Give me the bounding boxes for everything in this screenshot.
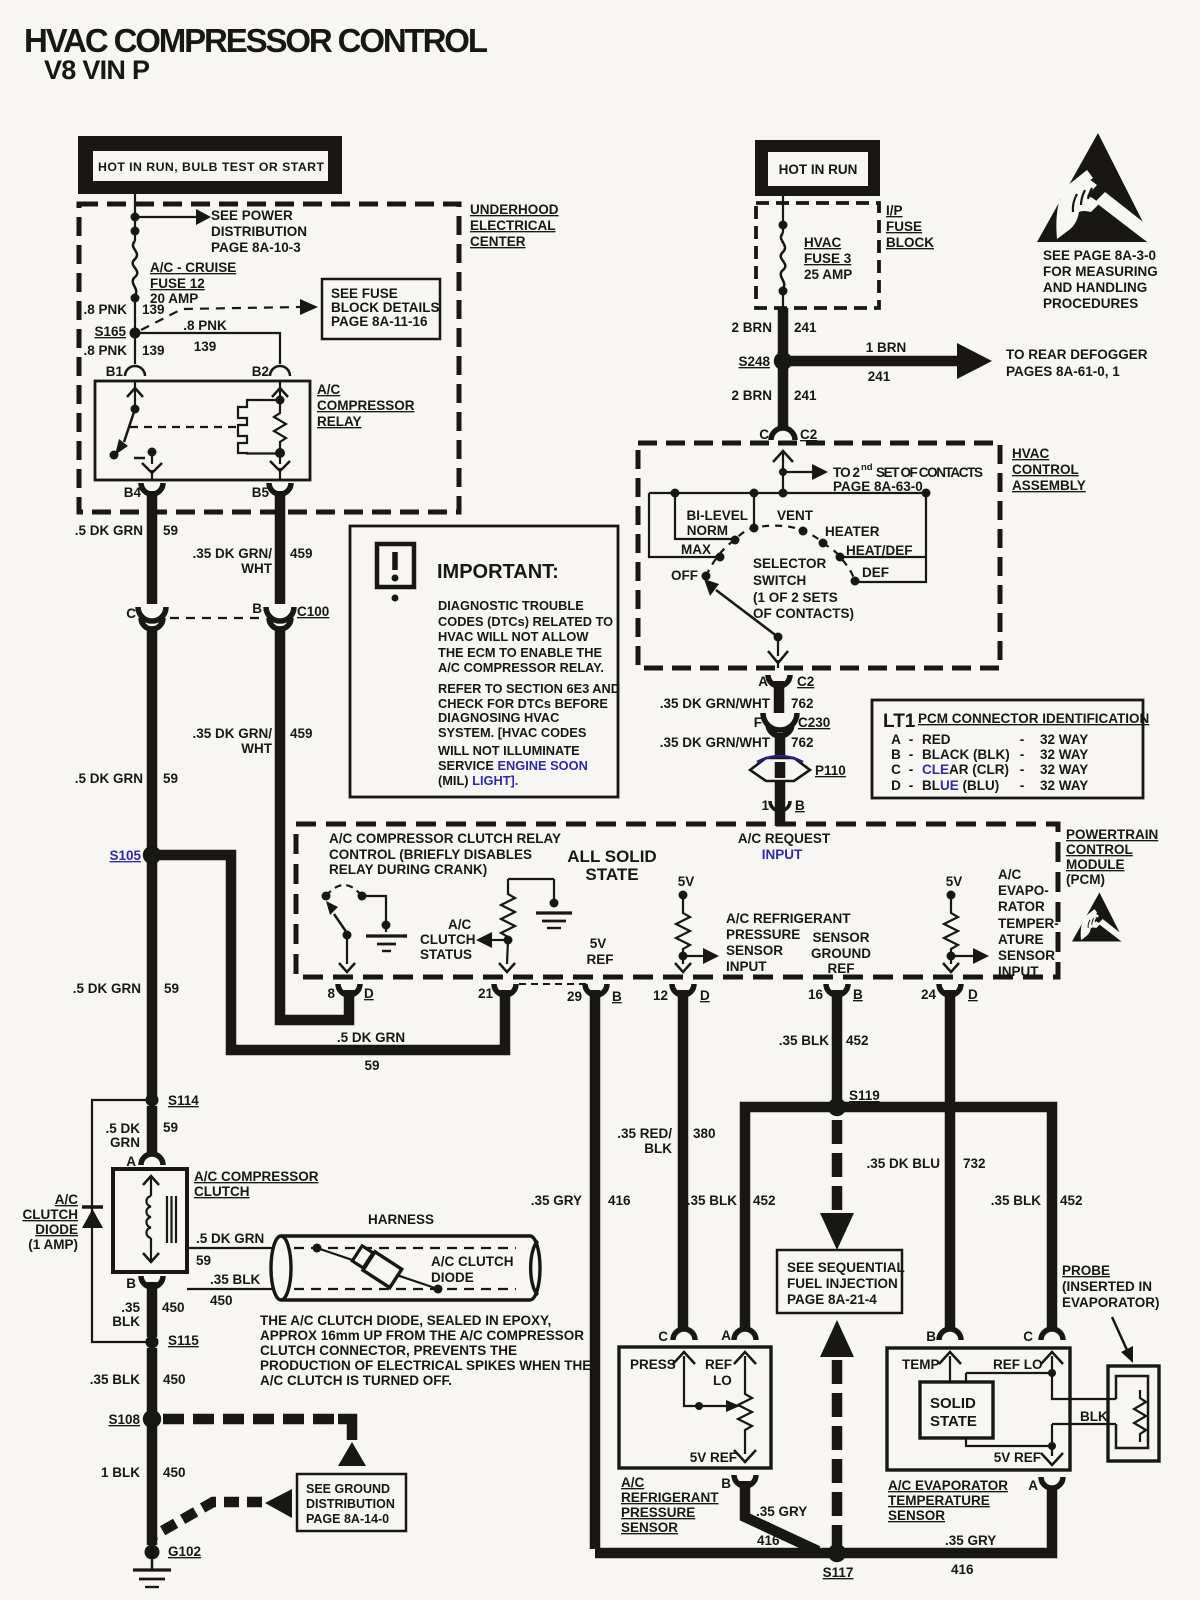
svg-text:416: 416 [608,1193,631,1208]
svg-text:S108: S108 [108,1412,140,1427]
svg-text:A: A [126,1154,136,1169]
wire bus to NORM contact [675,493,731,539]
svg-text:GRN: GRN [110,1135,140,1150]
coil top node [276,396,285,405]
wire B1 into relay [134,381,136,409]
svg-text:BLK: BLK [1080,1409,1108,1424]
svg-text:FUSE 3: FUSE 3 [804,251,852,266]
svg-text:HOT IN RUN: HOT IN RUN [779,162,858,177]
harness inset: wire .35 BLK 450 [187,1288,273,1290]
svg-text:G102: G102 [168,1544,201,1559]
selector contact OFF [702,572,711,581]
selector contact HEATER [819,539,828,548]
svg-text:STATE: STATE [585,865,638,884]
svg-text:C: C [759,427,769,442]
svg-text:B5: B5 [252,485,270,500]
svg-text:A/C: A/C [448,917,472,932]
connector C100 dashed link [170,617,264,619]
A/C clutch diode [82,1205,103,1209]
svg-text:RELAY: RELAY [317,414,362,429]
selector contact BI-LEVEL [750,524,759,533]
dashed wire from fuel injection page to S117 [820,1320,854,1357]
svg-text:S165: S165 [94,324,126,339]
wire C2 into selector common [782,450,784,493]
node dot [779,221,788,230]
wire B5 .35 DK GRN/WHT continues down to PCM pin 8 [280,628,349,1020]
wire pin 12 to pressure sensor C (.35 RED/BLK 380) [678,990,689,1330]
svg-text:452: 452 [1060,1193,1083,1208]
svg-text:SENSOR: SENSOR [812,930,869,945]
svg-text:FUEL INJECTION: FUEL INJECTION [787,1276,898,1291]
svg-text:ALL SOLID: ALL SOLID [567,847,656,866]
svg-text:59: 59 [163,1120,178,1135]
HVAC control assembly dashed box [638,443,1000,668]
svg-text:.5 DK: .5 DK [105,1121,140,1136]
wire into fuse 3 [782,196,784,233]
svg-text:32 WAY: 32 WAY [1040,732,1088,747]
svg-text:.35 BLK: .35 BLK [991,1193,1042,1208]
wire to S165 [134,298,136,364]
svg-text:HVAC WILL NOT ALLOW: HVAC WILL NOT ALLOW [438,629,589,644]
underhood electrical center dashed box [79,204,459,512]
power label box HOT IN RUN [755,140,880,196]
svg-text:BLK: BLK [112,1314,140,1329]
svg-text:TO REAR DEFOGGER: TO REAR DEFOGGER [1006,347,1148,362]
I/P fuse block dashed box [756,203,879,308]
svg-text:S248: S248 [738,354,770,369]
svg-text:S117: S117 [823,1565,854,1580]
fuse F3 symbol (wavy) [781,233,786,288]
selector contact MAX [716,553,725,562]
svg-text:B: B [126,1276,136,1291]
wire to pin 24 [950,956,952,964]
svg-text:SEE POWER: SEE POWER [211,208,293,223]
ground G102 [145,1545,160,1560]
splice S117 [828,1544,846,1562]
press wiper [673,1352,695,1364]
wire clutch B to S115 (.35 BLK 450) [147,1282,158,1337]
wire S115 to S108 (.35 BLK 450) [147,1348,158,1414]
svg-text:5V REF: 5V REF [690,1450,737,1465]
svg-text:VENT: VENT [777,508,814,523]
svg-text:A/C: A/C [998,867,1022,882]
splice S115 [146,1336,159,1349]
svg-text:D: D [700,988,710,1003]
svg-text:-: - [1020,762,1025,777]
wire S119 to pressure sensor A (.35 BLK 452) [745,1107,837,1330]
wire S165 to B2 [135,333,280,364]
svg-text:UNDERHOOD: UNDERHOOD [470,202,559,217]
powertrain control module dashed box [296,824,1058,977]
svg-text:PRESSURE: PRESSURE [726,927,800,942]
svg-text:REFER TO SECTION 6E3 AND: REFER TO SECTION 6E3 AND [438,681,620,696]
svg-text:EVAPO-: EVAPO- [998,883,1049,898]
svg-text:PAGE 8A-14-0: PAGE 8A-14-0 [306,1512,389,1526]
svg-text:HARNESS: HARNESS [368,1212,434,1227]
wiper wire out [777,637,779,656]
svg-text:STATUS: STATUS [420,947,472,962]
svg-text:C: C [658,1329,668,1344]
ESD symbol small [1072,892,1128,944]
svg-text:-: - [1020,732,1025,747]
svg-text:A: A [1028,1478,1038,1493]
svg-text:BLACK (BLK): BLACK (BLK) [922,747,1010,762]
svg-text:B: B [926,1329,936,1344]
svg-text:ELECTRICAL: ELECTRICAL [470,218,556,233]
svg-text:-: - [1020,778,1025,793]
svg-text:459: 459 [290,726,313,741]
svg-text:SEE FUSE: SEE FUSE [331,286,398,301]
svg-text:NORM: NORM [687,523,728,538]
svg-text:PAGE 8A-11-16: PAGE 8A-11-16 [331,314,428,329]
svg-text:I/P: I/P [886,203,903,218]
svg-text:29: 29 [567,989,582,1004]
svg-text:1 BRN: 1 BRN [866,340,907,355]
svg-text:COMPRESSOR: COMPRESSOR [317,398,415,413]
svg-text:C: C [891,762,901,777]
svg-text:DEF: DEF [862,565,889,580]
box SEE SEQUENTIAL FUEL INJECTION [777,1250,902,1313]
mechanical link dashed [130,426,237,428]
svg-text:.5 DK GRN: .5 DK GRN [75,771,143,786]
ref lo wire with junction [1041,1352,1063,1364]
svg-text:BLUE (BLU): BLUE (BLU) [922,778,999,793]
svg-text:.35 GRY: .35 GRY [531,1193,582,1208]
svg-text:-: - [909,762,914,777]
svg-text:B2: B2 [252,364,269,379]
svg-text:SENSOR: SENSOR [621,1520,678,1535]
grommet P110 [750,758,810,781]
box LT1 PCM connector identification [872,700,1143,798]
dashed selector arc [706,526,855,581]
svg-text:.8 PNK: .8 PNK [83,343,127,358]
svg-text:BLK: BLK [644,1141,672,1156]
dashed arrow to fuse details [141,307,300,330]
pot resistor [734,1352,756,1364]
svg-text:THE A/C CLUTCH DIODE, SEALED I: THE A/C CLUTCH DIODE, SEALED IN EPOXY, [260,1313,551,1328]
svg-text:SENSOR: SENSOR [888,1508,945,1523]
svg-text:HOT IN RUN, BULB TEST OR START: HOT IN RUN, BULB TEST OR START [98,160,324,174]
svg-text:.35 RED/: .35 RED/ [617,1126,672,1141]
svg-text:SEE GROUND: SEE GROUND [306,1482,390,1496]
selector contact NORM [731,536,740,545]
harness inset: wire .5 DK GRN 59 [187,1247,273,1249]
svg-text:(MIL) LIGHT].: (MIL) LIGHT]. [438,773,518,788]
svg-text:WILL NOT ILLUMINATE: WILL NOT ILLUMINATE [438,743,580,758]
dashed wire S119 to fuel injection page [832,1120,843,1210]
svg-text:C2: C2 [797,674,814,689]
svg-text:32 WAY: 32 WAY [1040,747,1088,762]
splice S108 [143,1410,161,1428]
arrowhead up [127,388,143,397]
relay control switch [322,892,331,901]
svg-text:.5 DK GRN: .5 DK GRN [196,1231,264,1246]
svg-text:452: 452 [846,1033,869,1048]
harness tube [281,1236,530,1300]
svg-text:.35 GRY: .35 GRY [756,1504,807,1519]
node dot [779,468,787,476]
svg-text:BLOCK DETAILS: BLOCK DETAILS [331,300,440,315]
wire 1 BLK 450 [147,1425,158,1545]
svg-text:SELECTOR: SELECTOR [753,556,827,571]
svg-text:.5 DK GRN: .5 DK GRN [73,981,141,996]
svg-text:32 WAY: 32 WAY [1040,762,1088,777]
wire contact to B4 [151,452,153,464]
svg-text:DISTRIBUTION: DISTRIBUTION [211,224,307,239]
svg-text:5V: 5V [678,874,695,889]
svg-text:INPUT: INPUT [998,964,1039,979]
wire bus to BI-LEVEL contact [753,493,755,526]
svg-text:INPUT: INPUT [762,847,803,862]
svg-text:.35 GRY: .35 GRY [945,1533,996,1548]
svg-text:A/C: A/C [317,382,341,397]
dashed wire S108 to ground distribution [163,1414,338,1425]
svg-text:A/C COMPRESSOR CLUTCH RELAY: A/C COMPRESSOR CLUTCH RELAY [329,831,561,846]
probe resistor (inserted in evaporator) [1108,1366,1159,1461]
splice S248 [774,352,792,370]
svg-text:.35 DK GRN/WHT: .35 DK GRN/WHT [660,696,771,711]
svg-text:CLUTCH: CLUTCH [420,932,476,947]
svg-text:FUSE: FUSE [886,219,922,234]
svg-text:D: D [364,986,374,1001]
svg-text:HVAC COMPRESSOR CONTROL: HVAC COMPRESSOR CONTROL [24,22,488,59]
svg-text:380: 380 [693,1126,716,1141]
svg-text:(PCM): (PCM) [1066,872,1105,887]
clutch status sense resistor [508,878,554,880]
relay U1 A/C compressor relay box [95,381,310,480]
wire pin 24 to evap sensor B (.35 DK BLU 732) [945,990,956,1330]
svg-text:B: B [891,747,901,762]
svg-text:HEATER: HEATER [825,524,880,539]
svg-text:OFF: OFF [671,568,698,583]
svg-text:241: 241 [794,388,817,403]
svg-text:STATE: STATE [930,1413,977,1430]
dashed wires inside harness [294,1247,516,1249]
svg-text:A/C REQUEST: A/C REQUEST [738,831,831,846]
svg-text:459: 459 [290,546,313,561]
svg-text:25 AMP: 25 AMP [804,267,852,282]
svg-text:HEAT/DEF: HEAT/DEF [846,543,913,558]
svg-text:TO 2: TO 2 [833,465,860,480]
selector wiper arm [774,633,783,642]
svg-text:241: 241 [794,320,817,335]
svg-text:732: 732 [963,1156,986,1171]
splice S165 [130,328,141,339]
svg-text:.35 DK BLU: .35 DK BLU [866,1156,940,1171]
node dot [779,287,788,296]
wire coil to B5 [279,453,281,464]
svg-text:DIODE: DIODE [431,1270,474,1285]
svg-text:ASSEMBLY: ASSEMBLY [1012,478,1086,493]
svg-text:REF: REF [828,961,855,976]
svg-text:DIAGNOSTIC TROUBLE: DIAGNOSTIC TROUBLE [438,598,584,613]
box IMPORTANT note [350,526,618,797]
coil resistance zigzag [274,400,286,452]
svg-text:PAGE 8A-63-0: PAGE 8A-63-0 [833,479,923,494]
wire B5 down (.35 DK GRN/WHT 459) [275,491,286,604]
svg-text:.35: .35 [121,1300,140,1315]
svg-text:16: 16 [808,987,824,1002]
svg-text:LT1: LT1 [883,711,916,732]
svg-text:APPROX 16mm UP FROM THE A/C CO: APPROX 16mm UP FROM THE A/C COMPRESSOR [260,1328,584,1343]
svg-text:REF: REF [705,1357,732,1372]
svg-text:C230: C230 [798,715,830,730]
svg-text:FOR MEASURING: FOR MEASURING [1043,264,1158,279]
svg-text:CONTROL: CONTROL [1012,462,1079,477]
svg-text:SEE SEQUENTIAL: SEE SEQUENTIAL [787,1260,905,1275]
wire S119 to evap sensor C (.35 BLK 452) [837,1107,1052,1330]
svg-text:24: 24 [921,987,937,1002]
selector contact DEF [851,577,860,586]
box SEE GROUND DISTRIBUTION [297,1474,406,1531]
svg-text:59: 59 [164,981,179,996]
svg-text:MODULE: MODULE [1066,857,1125,872]
svg-text:241: 241 [868,369,891,384]
selector common bus [649,492,926,494]
svg-text:CLUTCH: CLUTCH [194,1184,250,1199]
svg-text:PAGES 8A-61-0, 1: PAGES 8A-61-0, 1 [1006,364,1120,379]
svg-text:-: - [1020,747,1025,762]
svg-text:(INSERTED IN: (INSERTED IN [1062,1279,1152,1294]
A/C evaporator temperature sensor box [887,1348,1070,1470]
dashed wire to G102 [155,1502,262,1535]
selector contact HEAT/DEF [836,553,845,562]
wire 2 BRN 241 to C2 [778,368,789,427]
svg-text:21: 21 [478,986,494,1001]
A/C clutch diode package [351,1244,402,1288]
ground bus wire 416 [595,1486,1052,1553]
arrow probe pointer [1112,1317,1127,1350]
svg-text:B: B [721,1476,731,1491]
svg-text:OF CONTACTS): OF CONTACTS) [753,606,854,621]
svg-text:139: 139 [142,302,165,317]
contact gap tick [134,457,145,460]
svg-text:POWERTRAIN: POWERTRAIN [1066,827,1158,842]
svg-text:RED: RED [922,732,951,747]
svg-text:A/C CLUTCH: A/C CLUTCH [431,1254,514,1269]
svg-text:A/C - CRUISE: A/C - CRUISE [150,260,236,275]
svg-text:V8 VIN P: V8 VIN P [44,55,150,85]
svg-text:A/C CLUTCH IS TURNED OFF.: A/C CLUTCH IS TURNED OFF. [260,1373,452,1388]
svg-text:HVAC: HVAC [1012,446,1050,461]
wire to pin 21 [507,940,508,964]
svg-text:CLEAR (CLR): CLEAR (CLR) [922,762,1009,777]
svg-text:.35 BLK: .35 BLK [687,1193,738,1208]
coil core bracket [238,400,280,454]
svg-text:S115: S115 [168,1333,199,1348]
wire bus to DEF / HEAT-DEF contacts [858,493,926,582]
svg-text:A/C: A/C [55,1192,79,1207]
svg-text:SEE PAGE 8A-3-0: SEE PAGE 8A-3-0 [1043,248,1156,263]
svg-text:PAGE 8A-10-3: PAGE 8A-10-3 [211,240,301,255]
node dot [131,294,140,303]
svg-text:.35 DK GRN/WHT: .35 DK GRN/WHT [660,735,771,750]
relay left contact dot [110,451,119,460]
svg-text:HVAC: HVAC [804,235,842,250]
svg-text:C100: C100 [297,604,329,619]
svg-text:SERVICE ENGINE SOON: SERVICE ENGINE SOON [438,758,588,773]
solid state module box [920,1382,993,1438]
svg-text:B: B [252,601,262,616]
arrow A/C evaporator temperature sensor input [951,955,973,957]
svg-text:CHECK FOR DTCs BEFORE: CHECK FOR DTCs BEFORE [438,696,608,711]
svg-text:139: 139 [142,343,165,358]
svg-text:B: B [612,989,622,1004]
svg-text:B1: B1 [106,364,124,379]
coil bottom node [275,448,285,458]
fuse F12 symbol (wavy) [133,241,138,295]
svg-text:MAX: MAX [681,542,711,557]
svg-text:CONTROL: CONTROL [1066,842,1133,857]
svg-text:P110: P110 [815,763,846,778]
A/C refrigerant pressure sensor box [619,1347,771,1468]
wire 2 BRN 241 to S248 [778,308,789,355]
svg-text:B: B [853,987,863,1002]
diode branch wire [92,1100,146,1342]
svg-text:.8 PNK: .8 PNK [183,318,227,333]
svg-text:1 BLK: 1 BLK [101,1465,140,1480]
svg-text:C2: C2 [800,427,817,442]
svg-text:SYSTEM. [HVAC CODES: SYSTEM. [HVAC CODES [438,725,587,740]
svg-text:SWITCH: SWITCH [753,573,806,588]
svg-text:PAGE 8A-21-4: PAGE 8A-21-4 [787,1292,877,1307]
svg-text:-: - [909,778,914,793]
svg-text:TEMPERATURE: TEMPERATURE [888,1493,990,1508]
relay switch blade [124,409,135,442]
svg-text:5V: 5V [946,874,963,889]
ground symbol right [553,879,555,901]
svg-text:THE ECM TO ENABLE THE: THE ECM TO ENABLE THE [438,645,602,660]
svg-text:.35 BLK: .35 BLK [779,1033,830,1048]
wire to pin 8 [346,935,348,964]
arrow from ground distribution [265,1489,292,1518]
svg-text:B4: B4 [124,485,142,500]
svg-text:FUSE 12: FUSE 12 [150,276,205,291]
svg-text:A/C: A/C [621,1475,645,1490]
svg-text:PRODUCTION OF ELECTRICAL SPIKE: PRODUCTION OF ELECTRICAL SPIKES WHEN THE [260,1358,591,1373]
wire pin 29 to S117 bus (.35 GRY 416) [590,990,601,1549]
svg-text:416: 416 [951,1562,974,1577]
wire .35 DK GRN/WHT 762 [774,681,785,713]
svg-text:.35 BLK: .35 BLK [90,1372,141,1387]
svg-text:A/C REFRIGERANT: A/C REFRIGERANT [726,911,851,926]
svg-text:LO: LO [713,1373,732,1388]
svg-text:GROUND: GROUND [811,946,871,961]
wire bus to MAX contact [649,493,716,557]
svg-text:S119: S119 [849,1088,880,1103]
svg-text:.35 DK GRN/: .35 DK GRN/ [192,546,272,561]
5V ref return [966,1438,1052,1446]
relay coil wire from B2 [279,381,281,400]
svg-text:-: - [909,732,914,747]
wire .5 DK GRN continues to S105 [147,628,158,1096]
arrow A/C CLUTCH STATUS [492,939,508,941]
box SEE FUSE BLOCK DETAILS [322,279,440,339]
relay switch pivot dot [131,405,140,414]
svg-text:A: A [891,732,901,747]
svg-text:450: 450 [162,1300,185,1315]
svg-text:nd: nd [861,462,873,473]
arrow TO REAR DEFOGGER [790,356,957,367]
svg-text:SET OF CONTACTS: SET OF CONTACTS [876,465,983,480]
node dot [131,227,140,236]
svg-text:D: D [891,778,901,793]
svg-text:CENTER: CENTER [470,234,526,249]
svg-text:IMPORTANT:: IMPORTANT: [437,561,559,583]
clutch coil [143,1176,159,1185]
svg-text:.5 DK GRN: .5 DK GRN [337,1030,405,1045]
wire to pin 12 [682,956,684,964]
